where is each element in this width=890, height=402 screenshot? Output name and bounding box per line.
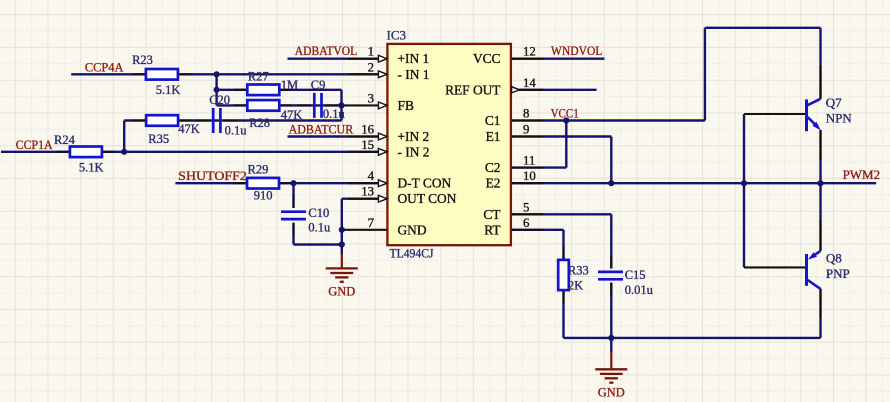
svg-text:RT: RT xyxy=(484,222,500,237)
svg-text:C1: C1 xyxy=(485,113,501,128)
svg-text:1: 1 xyxy=(368,45,374,59)
svg-text:C15: C15 xyxy=(625,268,646,282)
svg-text:10: 10 xyxy=(523,169,536,183)
svg-text:OUT CON: OUT CON xyxy=(398,191,457,206)
svg-text:1M: 1M xyxy=(281,78,298,92)
svg-text:C9: C9 xyxy=(311,78,326,92)
svg-text:WNDVOL: WNDVOL xyxy=(551,44,603,58)
svg-text:FB: FB xyxy=(398,98,414,113)
svg-text:2: 2 xyxy=(368,60,374,74)
svg-text:R23: R23 xyxy=(132,53,153,67)
svg-text:R28: R28 xyxy=(249,116,270,130)
svg-text:C10: C10 xyxy=(308,206,329,220)
svg-text:47K: 47K xyxy=(178,122,200,136)
svg-text:8: 8 xyxy=(523,107,529,121)
svg-text:D-T CON: D-T CON xyxy=(398,176,452,191)
svg-text:C20: C20 xyxy=(209,93,230,107)
svg-text:ADBATCUR: ADBATCUR xyxy=(289,122,354,136)
svg-text:14: 14 xyxy=(523,76,536,90)
svg-text:E1: E1 xyxy=(486,129,501,144)
svg-text:C2: C2 xyxy=(485,160,501,175)
svg-text:910: 910 xyxy=(254,189,273,203)
svg-text:0.1u: 0.1u xyxy=(308,221,331,235)
svg-text:2K: 2K xyxy=(568,279,583,293)
svg-text:PWM2: PWM2 xyxy=(843,168,881,182)
svg-text:6: 6 xyxy=(523,216,530,230)
svg-text:9: 9 xyxy=(523,123,529,137)
svg-text:GND: GND xyxy=(328,285,355,299)
svg-text:CCP4A: CCP4A xyxy=(85,60,124,74)
svg-text:VCC: VCC xyxy=(473,51,501,66)
svg-text:E2: E2 xyxy=(486,176,501,191)
svg-text:5.1K: 5.1K xyxy=(79,161,104,175)
svg-text:NPN: NPN xyxy=(826,111,853,126)
svg-text:R35: R35 xyxy=(148,132,169,146)
svg-text:R33: R33 xyxy=(568,264,589,278)
svg-text:VCC1: VCC1 xyxy=(551,107,579,121)
svg-text:ADBATVOL: ADBATVOL xyxy=(295,44,357,58)
svg-text:3: 3 xyxy=(368,91,374,105)
svg-text:TL494CJ: TL494CJ xyxy=(390,245,434,260)
svg-text:0.1u: 0.1u xyxy=(225,124,248,138)
svg-text:12: 12 xyxy=(523,45,536,59)
svg-text:IC3: IC3 xyxy=(387,28,407,43)
svg-text:GND: GND xyxy=(398,222,427,237)
svg-text:REF OUT: REF OUT xyxy=(445,82,500,97)
svg-text:CT: CT xyxy=(483,207,500,222)
svg-text:5.1K: 5.1K xyxy=(156,83,181,97)
svg-text:13: 13 xyxy=(361,185,374,199)
svg-text:+IN 1: +IN 1 xyxy=(398,51,430,66)
svg-text:- IN 2: - IN 2 xyxy=(398,144,430,159)
svg-text:R27: R27 xyxy=(248,70,269,84)
svg-text:PNP: PNP xyxy=(826,266,850,281)
svg-text:16: 16 xyxy=(361,123,374,137)
svg-text:+IN 2: +IN 2 xyxy=(398,129,430,144)
svg-text:R24: R24 xyxy=(54,133,76,147)
svg-text:7: 7 xyxy=(368,216,375,230)
svg-text:47K: 47K xyxy=(281,108,303,122)
svg-text:0.1u: 0.1u xyxy=(323,107,346,121)
svg-text:CCP1A: CCP1A xyxy=(16,138,53,152)
svg-text:Q7: Q7 xyxy=(826,95,842,110)
svg-text:GND: GND xyxy=(598,386,625,400)
svg-text:0.01u: 0.01u xyxy=(625,283,654,297)
svg-text:- IN 1: - IN 1 xyxy=(398,67,430,82)
svg-text:SHUTOFF2: SHUTOFF2 xyxy=(178,169,247,183)
svg-text:4: 4 xyxy=(368,169,375,183)
svg-text:R29: R29 xyxy=(248,163,269,177)
svg-text:15: 15 xyxy=(361,138,374,152)
svg-text:Q8: Q8 xyxy=(826,250,842,265)
svg-text:5: 5 xyxy=(523,200,529,214)
svg-text:11: 11 xyxy=(523,154,535,168)
